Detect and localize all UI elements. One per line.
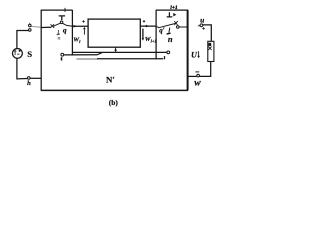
bottom-left port tick <box>61 57 63 60</box>
switch q' motion arrow <box>173 13 176 17</box>
W_l+1 down arrow <box>142 29 144 39</box>
switch q pivot circle <box>60 21 63 24</box>
switch q' arrow cross at tip <box>174 21 178 25</box>
plus right gap <box>143 20 145 22</box>
resistor box <box>208 41 214 61</box>
switch q motion arrow down <box>57 30 59 34</box>
wire: source top to port <box>17 30 29 48</box>
switch q' input wire <box>156 26 158 29</box>
svg-text:u: u <box>200 16 204 25</box>
rail1 <box>72 51 167 53</box>
wire: right gap (from inner box) <box>140 25 156 27</box>
w port minus dash above <box>195 71 199 73</box>
wire from inner box bottom to rail1 <box>115 47 117 51</box>
switch q fixed contact T <box>59 16 65 20</box>
stub above upper circle <box>29 23 31 24</box>
source S interior plus <box>14 50 17 56</box>
svg-text:q′: q′ <box>159 27 165 35</box>
wire: left box port to switch <box>41 26 51 28</box>
rail2 faint left part <box>77 58 99 60</box>
wire from resistor bottom to w port <box>200 62 211 77</box>
switch q' output wire <box>179 26 187 28</box>
svg-text:q: q <box>63 25 67 34</box>
outer box bottom edge <box>41 89 188 91</box>
inner box N <box>88 19 140 47</box>
switch q' arm <box>158 23 176 28</box>
rail1 end circle <box>167 51 170 54</box>
port terminal lower circle <box>29 29 32 32</box>
wire: h circle to outer box <box>30 77 41 79</box>
wire from u circle to resistor <box>203 25 211 41</box>
arrowhead on left gap wire <box>74 25 77 28</box>
rail2 end tick <box>164 56 166 59</box>
switch q' fixed contact <box>167 12 173 17</box>
wire: source bottom down <box>17 58 28 79</box>
plus under u <box>202 27 204 29</box>
switch q' pivot circle <box>177 26 180 29</box>
resistor interior block <box>208 43 211 46</box>
outer box right edge <box>187 10 189 91</box>
switch q' motion arrow down <box>168 28 171 33</box>
outer box top-right segment <box>156 9 188 11</box>
outer box top-left segment <box>41 9 73 11</box>
top-right port circle u <box>200 24 203 27</box>
switch q arm <box>53 23 61 27</box>
source S interior dot <box>19 50 21 52</box>
svg-text:h: h <box>27 80 31 87</box>
svg-text:N′: N′ <box>106 74 115 84</box>
port terminal upper circle <box>29 24 32 27</box>
arrowhead down onto rail1 <box>114 50 117 52</box>
bottom-left terminal circle h <box>28 77 31 80</box>
plus left gap <box>82 20 84 22</box>
W_l up arrow <box>83 29 85 34</box>
svg-text:w: w <box>194 77 201 88</box>
w port circle <box>197 74 200 77</box>
bottom-left port circle on rail <box>61 53 64 56</box>
svg-text:n: n <box>58 37 61 42</box>
switch q output wire <box>63 23 73 26</box>
rail2 <box>97 58 163 60</box>
wire: left gap (to inner box) <box>72 25 88 27</box>
U down arrow <box>198 51 200 56</box>
svg-text:Wl+1: Wl+1 <box>145 36 157 44</box>
top-right port tick <box>198 25 200 27</box>
right inner vertical (right box left edge) <box>155 10 157 59</box>
svg-text:n: n <box>168 34 173 44</box>
sloped wire from port circle to rail1 <box>64 53 102 55</box>
tick on left box top edge <box>64 8 66 12</box>
svg-text:l+1: l+1 <box>170 5 178 11</box>
switch q arrow cross <box>51 24 55 28</box>
source S interior minus <box>17 53 20 55</box>
resistor interior cross <box>208 46 211 50</box>
arrowhead on right gap wire <box>146 25 149 28</box>
outer box left edge <box>40 10 42 91</box>
source S circle <box>13 49 23 59</box>
svg-text:S: S <box>27 49 32 59</box>
left inner vertical (left box right edge) <box>71 10 73 56</box>
svg-text:(b): (b) <box>109 98 119 107</box>
svg-text:U: U <box>191 51 198 60</box>
wire from outer box to w circle <box>188 75 197 77</box>
svg-text:Wl: Wl <box>73 36 81 44</box>
faint wire from upper circle to box <box>31 25 41 28</box>
